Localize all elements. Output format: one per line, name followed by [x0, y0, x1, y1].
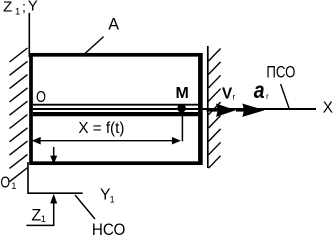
- ar vector arrowhead: [242, 104, 264, 117]
- leader line to A: [82, 37, 104, 57]
- right wall line: [207, 46, 209, 168]
- left wall hatching: [10, 48, 28, 182]
- box A (carriage body): [31, 55, 200, 163]
- svg-text:a: a: [254, 77, 265, 103]
- svg-text:НСО: НСО: [92, 220, 126, 235]
- svg-text:1: 1: [110, 194, 115, 204]
- svg-text:1: 1: [15, 6, 20, 17]
- X axis line: [33, 108, 316, 110]
- PCO leader line: [281, 84, 290, 109]
- svg-text:1: 1: [41, 214, 46, 225]
- rod bottom thick line: [33, 112, 199, 116]
- dimension left arrowhead: [32, 137, 41, 145]
- Z1 axis arrow (bottom): [26, 202, 53, 225]
- HCO leader line: [75, 195, 95, 219]
- svg-text:r: r: [266, 91, 269, 101]
- rod top line: [33, 104, 199, 106]
- dimension right arrowhead: [172, 137, 181, 145]
- point M dot: [177, 104, 186, 113]
- svg-text:ПСО: ПСО: [266, 63, 295, 81]
- svg-text:X = f(t): X = f(t): [78, 120, 124, 137]
- svg-text:O: O: [0, 175, 10, 192]
- M extension line down: [181, 112, 183, 141]
- svg-text:r: r: [233, 91, 236, 101]
- down arrow onto box bottom: [53, 147, 55, 157]
- svg-text:X: X: [323, 100, 333, 117]
- svg-text:Z: Z: [3, 0, 13, 16]
- svg-text:A: A: [108, 16, 119, 34]
- axis segment below box, O1 corner and Y1 horizontal axis: [28, 162, 83, 193]
- box right edge (thicker): [198, 53, 202, 165]
- ar vector thick shaft: [236, 108, 245, 111]
- svg-text:M: M: [176, 85, 189, 102]
- right wall hatching: [209, 49, 221, 169]
- svg-text:1: 1: [11, 181, 16, 192]
- svg-text:V: V: [222, 86, 233, 103]
- svg-text:O: O: [36, 89, 46, 106]
- svg-text:Y: Y: [28, 0, 38, 15]
- svg-text:;: ;: [22, 0, 26, 15]
- axis line Z1/Y vertical (top segment): [28, 13, 30, 57]
- Vr vector arrowhead: [216, 104, 236, 117]
- dimension line X=f(t): [36, 140, 176, 142]
- Vr vector thick shaft: [207, 108, 218, 111]
